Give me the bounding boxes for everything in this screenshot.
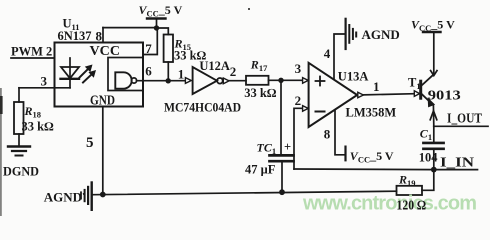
svg-text:3: 3 <box>295 61 302 76</box>
svg-text:2: 2 <box>230 64 237 79</box>
svg-text:8: 8 <box>96 29 103 44</box>
svg-text:104: 104 <box>419 150 439 164</box>
svg-text:www.cntronics.com: www.cntronics.com <box>302 193 477 215</box>
svg-text:AGND': AGND' <box>44 190 85 205</box>
svg-text:1: 1 <box>373 79 380 94</box>
svg-text:2: 2 <box>295 93 302 108</box>
svg-text:VCC_5 V: VCC_5 V <box>350 149 394 165</box>
svg-text:I_IN: I_IN <box>440 156 474 171</box>
svg-text:+: + <box>284 140 291 154</box>
svg-text:GND: GND <box>90 93 115 108</box>
svg-text:U13A: U13A <box>338 69 369 83</box>
svg-text:4: 4 <box>324 46 331 61</box>
svg-text:MC74HC04AD: MC74HC04AD <box>164 101 241 115</box>
svg-text:7: 7 <box>145 41 152 56</box>
svg-text:AGND: AGND <box>362 27 400 42</box>
svg-text:VCC_5 V: VCC_5 V <box>139 3 183 19</box>
svg-text:1: 1 <box>178 67 185 82</box>
svg-text:5: 5 <box>86 135 94 151</box>
svg-text:VCC: VCC <box>90 43 121 58</box>
svg-text:47 μF: 47 μF <box>245 163 276 177</box>
svg-text:VCC_5 V: VCC_5 V <box>411 18 455 33</box>
svg-text:8: 8 <box>324 126 331 141</box>
svg-text:DGND: DGND <box>3 163 39 178</box>
svg-text:9013: 9013 <box>428 88 461 103</box>
svg-text:U12A: U12A <box>199 59 230 73</box>
svg-text:LM358M: LM358M <box>346 106 397 120</box>
svg-text:33 kΩ: 33 kΩ <box>244 86 277 100</box>
svg-text:6N137: 6N137 <box>58 29 92 43</box>
svg-text:I_OUT: I_OUT <box>447 111 483 126</box>
svg-text:6: 6 <box>145 64 152 79</box>
svg-text:PWM 2: PWM 2 <box>11 45 52 59</box>
svg-text:120 Ω: 120 Ω <box>397 197 427 212</box>
svg-text:33 kΩ: 33 kΩ <box>22 120 55 134</box>
svg-text:3: 3 <box>41 74 48 89</box>
